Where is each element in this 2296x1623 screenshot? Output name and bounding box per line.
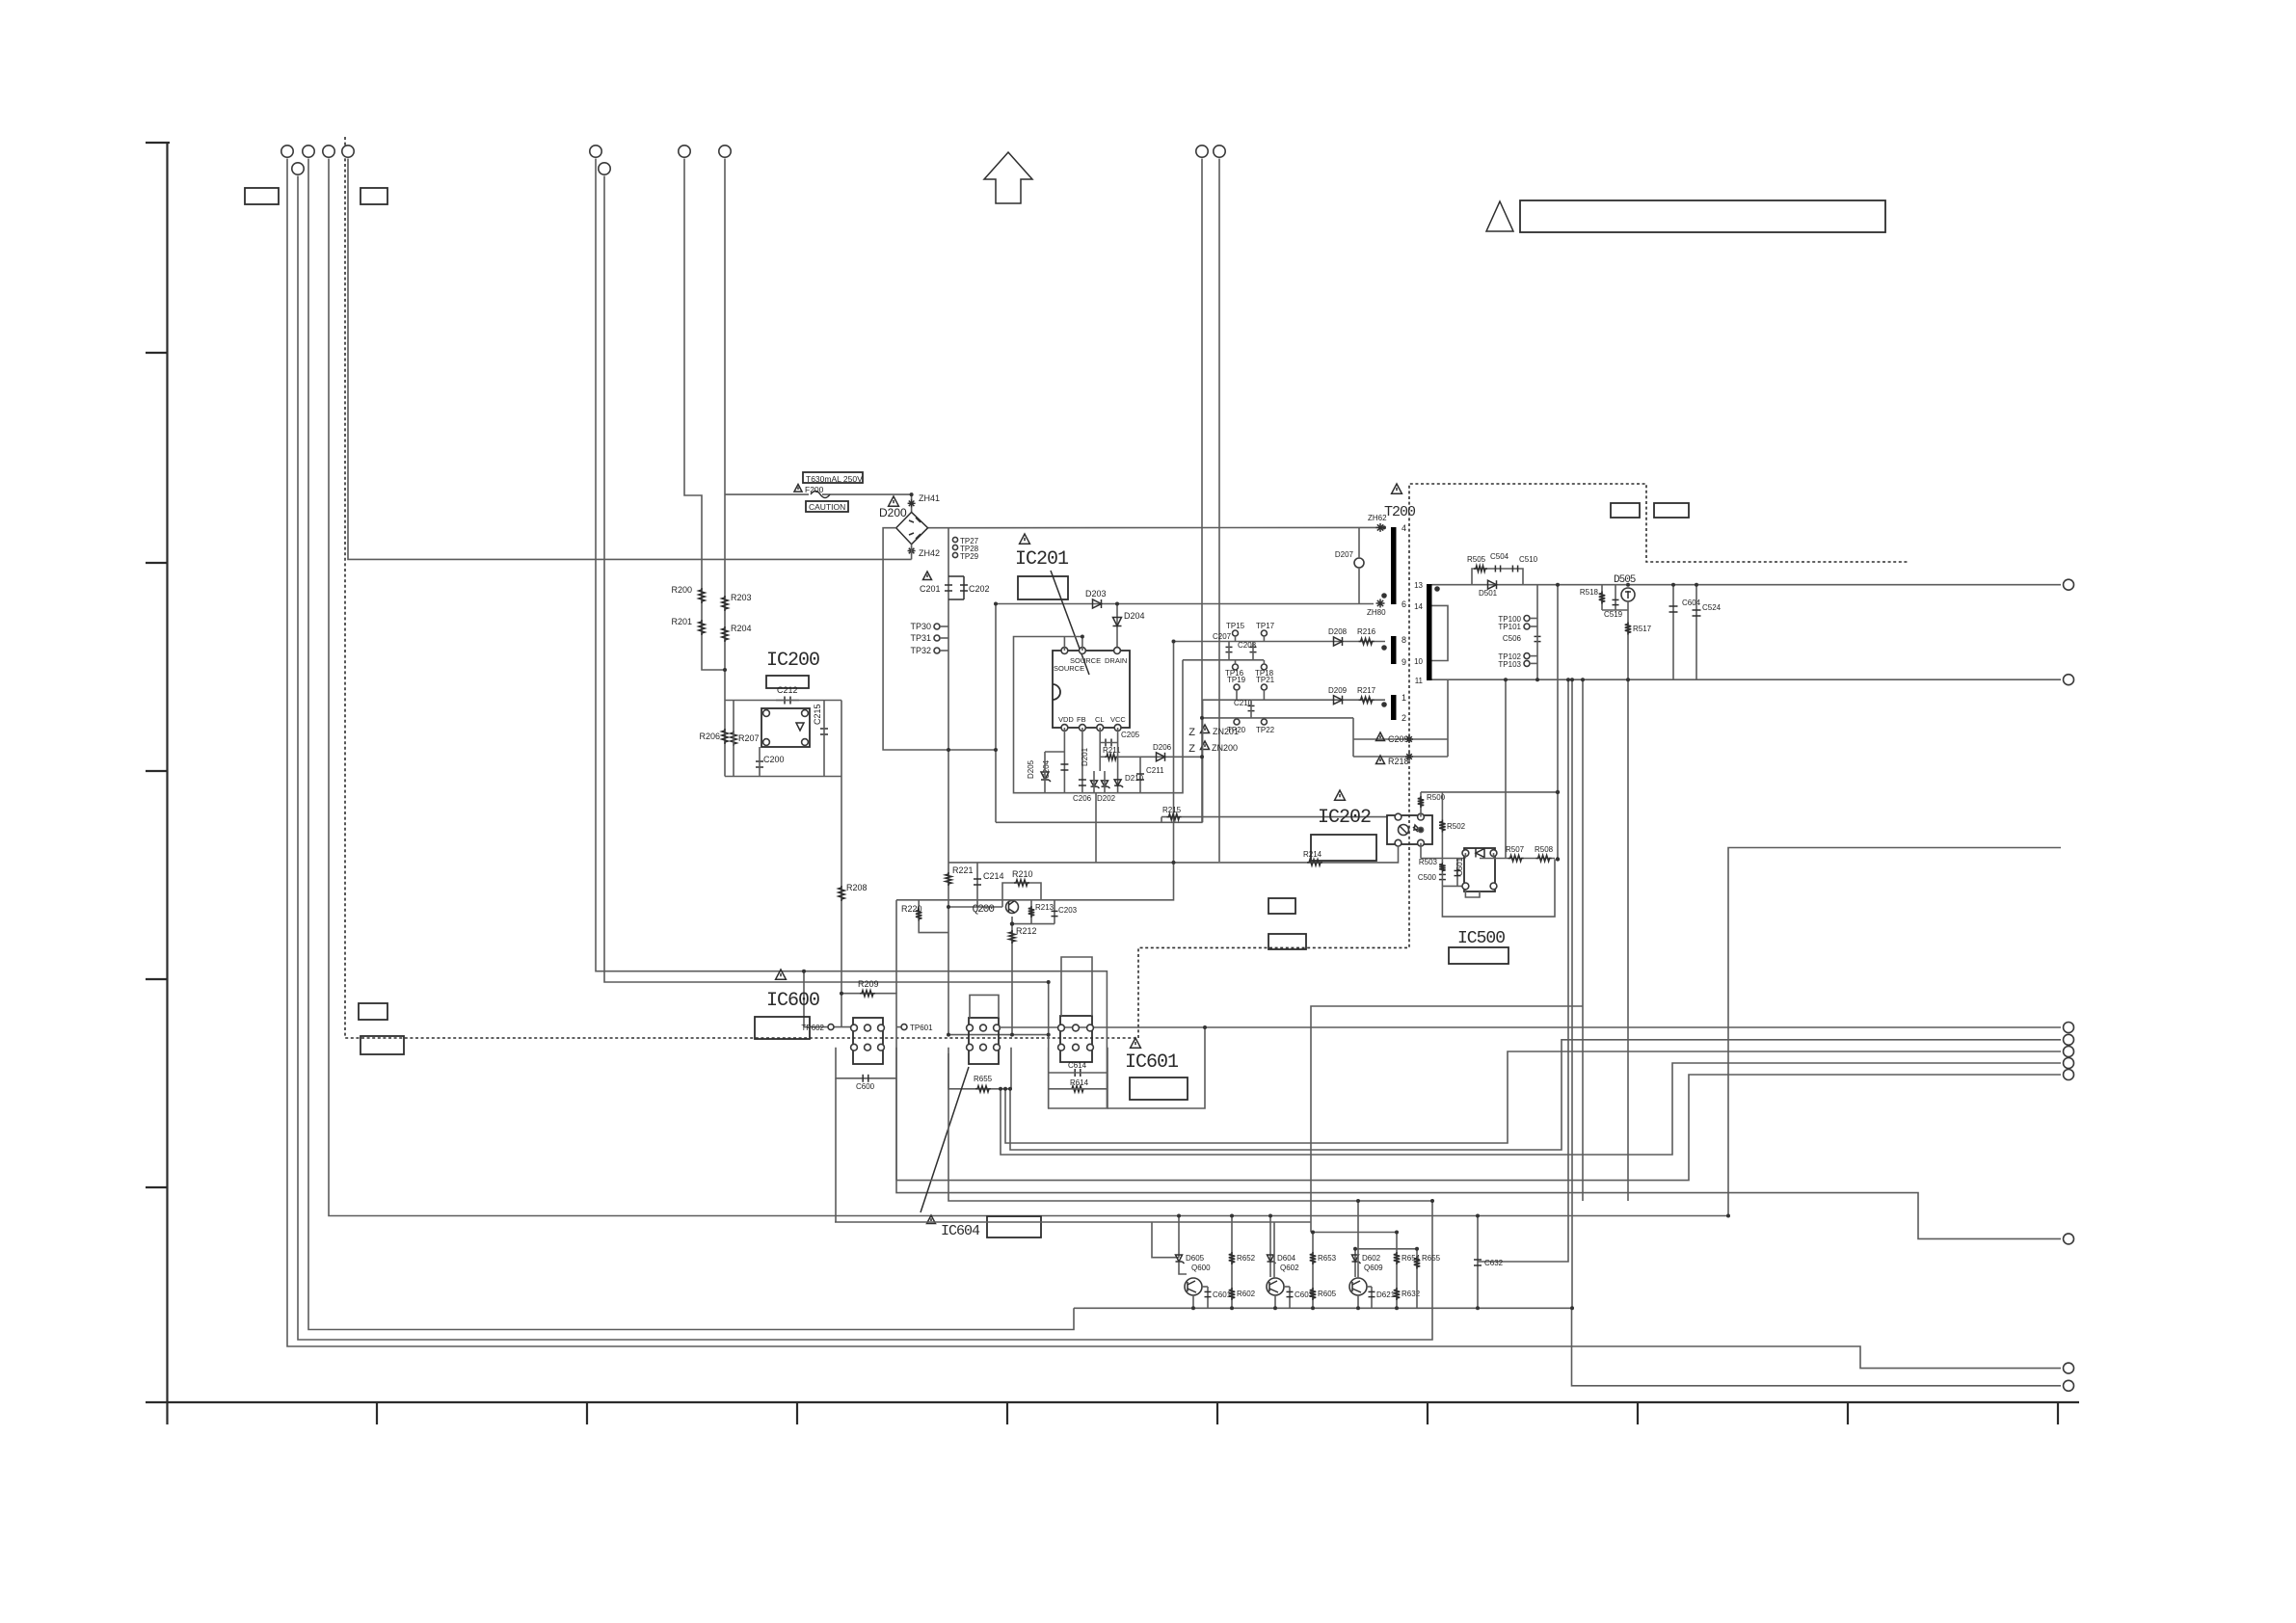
connector pin P2 (292, 163, 304, 174)
svg-text:R210: R210 (1012, 869, 1033, 879)
winding dot (1381, 593, 1387, 599)
test point TP17 (1261, 630, 1267, 636)
wire Q200 collector (1022, 862, 1174, 900)
connector pin P1 (281, 146, 293, 157)
resistor R654 (1394, 1252, 1400, 1264)
wire winding1 line (1203, 700, 1385, 822)
pin 2 (1080, 725, 1086, 732)
svg-text:D200: D200 (879, 506, 907, 519)
capacitor C524 (1695, 585, 1697, 680)
resistor R218 link (1353, 756, 1448, 758)
test point TP29 (952, 552, 957, 557)
capacitor C208 (1250, 646, 1257, 648)
capacitor C600 (862, 1075, 864, 1082)
test point TP30 (934, 624, 940, 629)
junction dots (910, 492, 914, 496)
IC604 part box (987, 1216, 1041, 1237)
wire reg2 bottom loop (948, 1048, 1011, 1089)
resistor R602 (1231, 1216, 1233, 1309)
svg-text:DRAIN: DRAIN (1105, 656, 1127, 665)
wire C600 return to output O8 (896, 1078, 2061, 1239)
svg-text:VCC: VCC (1110, 715, 1126, 724)
wire Q200 base net (948, 906, 1002, 908)
svg-text:R214: R214 (1303, 850, 1322, 859)
T200 winding 1-2 bar (1391, 695, 1397, 720)
wire net I (pin P9 AC line to fuse) (724, 159, 726, 701)
wire IC604 bus 1268 (835, 1221, 1311, 1223)
svg-text:D206: D206 (1153, 743, 1172, 752)
wire cluster base Q600 (1178, 1216, 1180, 1258)
wire R214 left stub (948, 862, 1096, 864)
snubber R505 C504 C510 (1472, 569, 1523, 585)
test point TP16 (1233, 664, 1239, 670)
svg-text:R206: R206 (699, 732, 720, 741)
zener D202 pair (1091, 781, 1098, 786)
svg-text:R518: R518 (1580, 588, 1599, 597)
resistor R208 (839, 886, 844, 901)
svg-text:D203: D203 (1085, 589, 1107, 599)
wire net K (pin P11 to R214 line) (1218, 159, 1220, 863)
svg-text:D604: D604 (1277, 1254, 1296, 1263)
svg-text:R614: R614 (1070, 1078, 1089, 1087)
wire shunt node (1421, 858, 1465, 860)
opto base dot (1418, 827, 1425, 834)
svg-text:R212: R212 (1016, 926, 1037, 936)
diode D214 inside (796, 723, 804, 731)
svg-text:C206: C206 (1073, 794, 1092, 803)
svg-text:TP21: TP21 (1256, 676, 1275, 684)
svg-text:C604: C604 (1682, 599, 1701, 607)
output terminal O7 (2064, 1070, 2074, 1080)
svg-text:9: 9 (1402, 657, 1406, 667)
wire IC500 outer ground loop (1442, 859, 1555, 917)
svg-text:VDD: VDD (1058, 715, 1074, 724)
resistor R220 (896, 899, 1022, 901)
connector pin P11 (1214, 146, 1225, 157)
svg-text:R605: R605 (1318, 1290, 1337, 1298)
svg-text:R655: R655 (974, 1075, 993, 1083)
svg-text:D602: D602 (1362, 1254, 1381, 1263)
diode D206 (1157, 753, 1165, 761)
svg-text:6: 6 (1402, 599, 1406, 609)
test point TP102 (1524, 653, 1530, 659)
zener D602 (1354, 1249, 1356, 1277)
fuse F200 (811, 492, 830, 498)
svg-text:TP15: TP15 (1226, 622, 1245, 630)
border frame left ruler (146, 142, 170, 144)
regulator IC604 body (second) (969, 1018, 999, 1064)
zener D604 (1269, 1216, 1271, 1278)
wire IC200 to R208 (841, 777, 842, 994)
reg1 pins (851, 1024, 858, 1031)
svg-text:10: 10 (1414, 657, 1423, 666)
svg-text:D505: D505 (1614, 574, 1636, 586)
reg2 pins (967, 1024, 974, 1031)
wire reg2 top in (970, 995, 999, 1018)
svg-text:TP30: TP30 (910, 622, 931, 631)
capacitor C214 (976, 863, 978, 907)
wire R209 loop (841, 994, 896, 1027)
IC604 label (927, 1215, 936, 1224)
svg-text:TP103: TP103 (1498, 660, 1521, 669)
relay IC200 box (761, 708, 810, 747)
wire TP602 feed (804, 1026, 853, 1028)
resistor R518 (1601, 585, 1603, 610)
pin 5 (1114, 648, 1121, 654)
svg-text:C603: C603 (1295, 1290, 1314, 1299)
capacitor C211 (1139, 757, 1141, 792)
bridge rectifier D200 (896, 512, 928, 544)
svg-text:IC500: IC500 (1457, 929, 1505, 948)
wire R213 bottom (1012, 923, 1055, 925)
part box middle 2 (1268, 898, 1295, 914)
capacitor C604 (1672, 585, 1674, 680)
resistor R215 (1167, 813, 1182, 819)
svg-text:R209: R209 (858, 979, 879, 989)
resistor R209 (860, 991, 875, 997)
wire stub C212 (776, 700, 799, 702)
part box left b (360, 1036, 404, 1054)
svg-text:C601: C601 (1213, 1290, 1232, 1299)
svg-text:R653: R653 (1318, 1254, 1337, 1263)
svg-text:R655: R655 (1422, 1254, 1441, 1263)
T200 secondary bar 13-11 (1427, 584, 1432, 680)
capacitor C603 (1289, 1287, 1291, 1308)
resistor R212 (1009, 930, 1015, 944)
output terminal O1 (2064, 579, 2074, 590)
zener D205 (1041, 772, 1049, 780)
svg-text:R207: R207 (738, 733, 760, 743)
diode D203 (1093, 599, 1102, 608)
optocoupler IC202 body (1387, 815, 1432, 844)
pin 2 (802, 739, 809, 746)
wire bus 1224 riser (896, 1075, 2061, 1181)
wire net E (pin P5 AC line to bridge) (348, 159, 912, 560)
svg-text:R508: R508 (1535, 845, 1554, 854)
wire bridge negative to IC201 ground (883, 528, 996, 750)
test point TP22 (1261, 719, 1267, 725)
svg-text:R220: R220 (901, 904, 922, 914)
wire IC200 top (725, 700, 841, 702)
part box TP602 left (755, 1017, 810, 1039)
svg-text:D207: D207 (1335, 550, 1354, 559)
wire 13 output bus (1432, 584, 2062, 586)
pin 7 (1080, 648, 1086, 654)
capacitor C202 (948, 575, 964, 577)
svg-text:IC201: IC201 (1015, 548, 1069, 571)
svg-text:C524: C524 (1702, 603, 1722, 612)
capacitor D621 (1371, 1287, 1373, 1308)
svg-text:C519: C519 (1604, 610, 1623, 619)
svg-text:R221: R221 (952, 865, 974, 875)
wire riser 1627 (1478, 679, 1568, 1262)
wire staircase C (R655 rail to output O5) (1005, 1051, 2061, 1143)
capacitor C201 (923, 572, 932, 580)
capacitor C210 (1248, 705, 1255, 706)
shunt regulator IC500 body (1464, 848, 1495, 891)
IC201 callout line (1051, 571, 1089, 675)
resistor R605 (1312, 1233, 1314, 1309)
svg-text:D201: D201 (1081, 747, 1089, 766)
capacitor C205 (1105, 739, 1107, 747)
wire subrail 1278 (1313, 1232, 1397, 1234)
wire D505 node (1602, 609, 1628, 611)
svg-text:1: 1 (1402, 693, 1406, 703)
svg-text:D605: D605 (1186, 1254, 1205, 1263)
resistor R200 (699, 588, 705, 603)
capacitor C206 (1079, 779, 1086, 781)
diode D209 (1334, 696, 1343, 705)
svg-text:C209: C209 (1388, 734, 1409, 744)
resistor R204 (722, 626, 728, 642)
svg-text:C203: C203 (1058, 906, 1078, 915)
svg-text:D621: D621 (1376, 1290, 1396, 1299)
wire branch to IC600 input (803, 971, 805, 1027)
resistor R655 reg2 (975, 1086, 991, 1092)
svg-text:Q200: Q200 (973, 904, 995, 916)
connector pin P6 (590, 146, 601, 157)
reg3 pins (1058, 1024, 1065, 1031)
border frame bottom ruler (146, 1401, 2079, 1403)
svg-text:C212: C212 (777, 685, 798, 695)
wire IC200 right vert (841, 701, 842, 777)
wire node 822 (1421, 791, 1558, 793)
wire net B (pin P2 to reg2 ground) (298, 176, 1432, 1341)
svg-text:C500: C500 (1418, 873, 1437, 882)
svg-text:ZH62: ZH62 (1368, 514, 1387, 522)
svg-text:R201: R201 (671, 617, 692, 626)
wire opto right pins (1420, 792, 1422, 817)
wire bottom bus IC201 (996, 821, 1203, 823)
wire reg3 top in (1061, 957, 1092, 1016)
IC500 part box (1449, 947, 1508, 964)
resistor R201 (699, 620, 705, 635)
svg-text:R208: R208 (846, 883, 868, 892)
output terminal O10 (2064, 1380, 2074, 1391)
svg-text:8: 8 (1402, 635, 1406, 645)
capacitor C601 (1207, 1287, 1209, 1308)
diode D208 (1334, 637, 1343, 646)
wire staircase B (R655 rail to output O4) (1010, 1040, 2061, 1150)
resistor R500 (1418, 796, 1424, 808)
IC601 label (1131, 1038, 1141, 1048)
capacitor C207 (1226, 646, 1233, 648)
part box T200 area 1 (1611, 503, 1640, 518)
pin ref (1490, 883, 1497, 890)
wire net D (pin P4 to output via riser) (329, 159, 2061, 1216)
capacitor C519 (1615, 585, 1616, 610)
connector pin P8 (679, 146, 690, 157)
wire Q200 emitter (1011, 917, 1013, 1035)
svg-text:CAUTION: CAUTION (809, 502, 845, 512)
output terminal O4 (2064, 1034, 2074, 1045)
resistor R214 (1307, 860, 1322, 865)
wire bus 1198 riser (1001, 1063, 2061, 1155)
svg-text:IC604: IC604 (941, 1223, 980, 1239)
svg-text:C200: C200 (763, 755, 785, 764)
capacitor C200 (756, 760, 763, 762)
test point TP32 (934, 648, 940, 653)
test point TP19 (1234, 684, 1240, 690)
svg-text:D205: D205 (1027, 759, 1035, 779)
reg2 callout (921, 1067, 969, 1212)
svg-text:IC600: IC600 (766, 990, 819, 1012)
varistor ZH42 (908, 550, 916, 552)
resistor R217 (1359, 697, 1375, 703)
svg-text:C215: C215 (813, 704, 822, 725)
resistor R221 (946, 872, 951, 886)
connector pin P10 (1196, 146, 1208, 157)
test point TP20 (1234, 719, 1240, 725)
pin 4 (763, 710, 770, 717)
wire riser 1689 (1627, 679, 1629, 1201)
regulator IC601 body (third) (1060, 1016, 1092, 1062)
svg-text:Z: Z (1188, 743, 1195, 755)
test point TP31 (934, 635, 940, 641)
wire Q600 base riser (1152, 1222, 1179, 1258)
pin 4 (1114, 725, 1121, 732)
capacitor C212 (784, 697, 786, 705)
svg-text:ZH80: ZH80 (1367, 608, 1386, 617)
resistor R502 (1441, 792, 1443, 859)
capacitor C203 (1054, 900, 1055, 924)
svg-text:D208: D208 (1328, 627, 1348, 636)
diode D207 (1354, 558, 1364, 568)
pin 2 (1395, 813, 1402, 820)
svg-text:FB: FB (1077, 715, 1086, 724)
wire reg1 down (835, 1078, 837, 1222)
svg-text:R216: R216 (1357, 627, 1376, 636)
output terminal O5 (2064, 1047, 2074, 1057)
svg-text:R507: R507 (1506, 845, 1525, 854)
svg-text:C211: C211 (1146, 766, 1164, 775)
svg-text:C501: C501 (1455, 857, 1464, 876)
wire drain bus (996, 603, 1374, 605)
winding dot 13 (1434, 586, 1440, 592)
svg-text:R503: R503 (1419, 858, 1438, 866)
svg-text:D204: D204 (1124, 611, 1145, 621)
svg-text:C214: C214 (983, 871, 1004, 881)
svg-text:C614: C614 (1068, 1061, 1087, 1070)
wire fuse line (725, 493, 809, 495)
svg-text:R218: R218 (1388, 757, 1409, 766)
pin K (1462, 850, 1469, 857)
connector pin P3 (303, 146, 314, 157)
svg-text:SOURCE: SOURCE (1054, 664, 1084, 673)
wire branch 1044 (1311, 1006, 1583, 1233)
pin R (1462, 883, 1469, 890)
svg-text:C632: C632 (1484, 1259, 1504, 1267)
svg-text:R505: R505 (1467, 555, 1486, 564)
resistor R517 (1625, 623, 1631, 635)
connector label box 1 (245, 188, 279, 204)
wire pin14-10 link (1432, 605, 1449, 660)
wire link verticals (1352, 718, 1354, 757)
resistor R207 (731, 731, 736, 746)
varistor ZH62 (1376, 526, 1385, 528)
capacitor C632 (1477, 1216, 1479, 1309)
T200 primary bar (1391, 527, 1397, 604)
svg-text:R200: R200 (671, 585, 692, 595)
svg-text:C205: C205 (1121, 731, 1140, 739)
capacitor C501 (1456, 859, 1458, 887)
wire riser 1217 (1173, 642, 1175, 862)
connector label box 2 (360, 188, 387, 204)
wire reg2 ground bus (948, 1053, 1432, 1201)
capacitor C614 (1074, 1069, 1076, 1077)
svg-text:IC601: IC601 (1125, 1051, 1179, 1074)
wire opto pin4 drop (1420, 843, 1422, 859)
pin 1 (1061, 725, 1068, 732)
wire subrail 1295 (1355, 1248, 1417, 1250)
IC202 part box (1311, 835, 1376, 861)
svg-text:ZH42: ZH42 (919, 548, 940, 558)
capacitor C209 link (1353, 738, 1448, 740)
wire left drop (995, 604, 997, 823)
wire pin2 drop (1081, 728, 1083, 793)
capacitor C215 (820, 728, 828, 730)
svg-text:C202: C202 (969, 584, 990, 594)
svg-text:R203: R203 (731, 593, 752, 602)
transformer T200 label (1392, 484, 1402, 493)
zener node vertical (1201, 718, 1203, 822)
varistor ZH80 (1376, 602, 1385, 604)
part box T200 area 2 (1654, 503, 1689, 518)
resistor R653 (1310, 1252, 1316, 1264)
wire bottom rail (1074, 1308, 2061, 1386)
svg-text:C504: C504 (1490, 552, 1509, 561)
wire pin4 drop (1117, 728, 1119, 793)
wire TP riser (1536, 585, 1538, 680)
output terminal O3 (2064, 1023, 2074, 1033)
opto LED (1399, 825, 1409, 836)
svg-text:TP19: TP19 (1227, 676, 1246, 684)
wire IC500 out (1464, 853, 1466, 858)
test point TP602 (828, 1024, 834, 1030)
svg-text:ZN200: ZN200 (1212, 743, 1238, 753)
output terminal O6 (2064, 1058, 2074, 1069)
wire IC500 ground riser (1505, 679, 1507, 858)
wire IC500 bottom loop (1465, 890, 1480, 897)
svg-text:TP601: TP601 (910, 1024, 933, 1032)
wire reg3 bottom loop (1049, 1048, 1108, 1108)
wire net A (pin P1 to output) (287, 159, 2061, 1369)
svg-text:4: 4 (1402, 523, 1406, 533)
IC600 label (776, 970, 787, 979)
svg-text:C210: C210 (1234, 699, 1253, 707)
output terminal O2 (2064, 675, 2074, 685)
svg-text:IC202: IC202 (1318, 807, 1371, 829)
wire R211 node (1118, 756, 1202, 758)
diode D204 (1116, 604, 1118, 652)
wire riser 1631 (1571, 679, 1573, 1308)
wire Q602 base riser (1273, 1222, 1275, 1278)
pin A (1490, 850, 1497, 857)
svg-text:C600: C600 (856, 1082, 875, 1091)
resistor R216 (1359, 638, 1375, 644)
IC202 label (1335, 790, 1346, 800)
svg-text:2: 2 (1402, 713, 1406, 723)
wire emitter join (948, 1034, 1049, 1036)
svg-text:IC200: IC200 (766, 650, 819, 672)
svg-text:TP31: TP31 (910, 633, 931, 643)
IC500 diode (1476, 849, 1484, 858)
wire bridge to T200 pin4 (928, 526, 1377, 528)
resistor R652 (1229, 1252, 1235, 1264)
svg-text:TP22: TP22 (1256, 726, 1275, 734)
svg-text:R204: R204 (731, 624, 752, 633)
resistor R614 (1070, 1086, 1085, 1092)
